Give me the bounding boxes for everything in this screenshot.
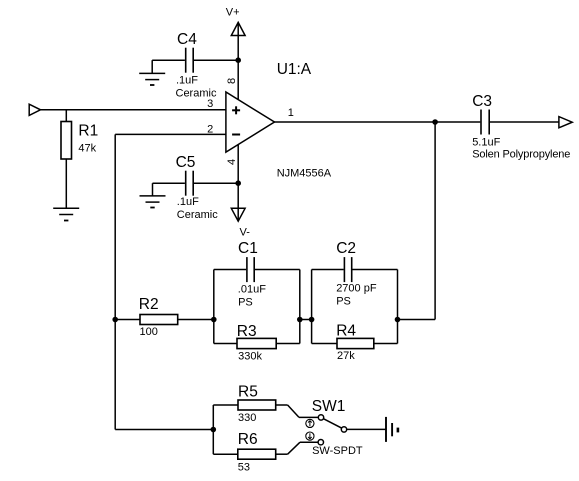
node C1/R3 right <box>297 317 303 323</box>
svg-text:C1: C1 <box>238 240 258 257</box>
svg-text:C4: C4 <box>177 31 197 48</box>
svg-text:27k: 27k <box>337 350 355 362</box>
svg-text:R5: R5 <box>238 384 258 401</box>
capacitor C5 <box>186 171 194 196</box>
wire to R6 <box>213 453 238 455</box>
node output junction <box>432 119 438 125</box>
svg-text:330: 330 <box>238 412 256 424</box>
node switch tee <box>211 427 217 433</box>
node C5/V- junction <box>235 180 241 186</box>
wire output junction down <box>434 122 436 320</box>
svg-text:5.1uF: 5.1uF <box>472 137 500 149</box>
svg-text:Ceramic: Ceramic <box>177 209 218 221</box>
svg-text:330k: 330k <box>238 350 262 362</box>
wire ground to C4 <box>152 59 185 61</box>
svg-text:SW1: SW1 <box>312 398 346 415</box>
capacitor C4 <box>186 48 194 73</box>
svg-text:100: 100 <box>140 326 158 338</box>
svg-text:1: 1 <box>288 107 294 119</box>
output terminal <box>559 117 572 128</box>
wire link between RC blocks <box>300 319 312 321</box>
node C1/R3 left <box>211 317 217 323</box>
capacitor C3 <box>481 110 489 135</box>
svg-text:2700 pF: 2700 pF <box>336 283 377 295</box>
wire C5 to V- rail <box>194 182 238 184</box>
node C4/V+ junction <box>235 57 241 63</box>
wire R4 bottom left <box>312 343 337 345</box>
wire feedback vertical <box>114 134 116 429</box>
capacitor C1 <box>247 257 254 282</box>
resistor R3 <box>237 338 276 348</box>
svg-text:.01uF: .01uF <box>238 283 266 295</box>
wire R3 bottom left <box>214 343 237 345</box>
wire ground to C5 <box>153 182 185 184</box>
svg-text:C5: C5 <box>176 154 196 171</box>
wire C3 to output terminal <box>490 121 559 123</box>
resistor R5 <box>238 400 276 410</box>
svg-text:4: 4 <box>226 159 238 165</box>
svg-text:V-: V- <box>240 227 251 239</box>
battery terminal <box>386 417 398 442</box>
svg-text:47k: 47k <box>78 142 96 154</box>
svg-text:.1uF: .1uF <box>177 196 199 208</box>
svg-text:Solen Polypropylene: Solen Polypropylene <box>472 149 570 161</box>
SW1 down actuator <box>306 432 314 440</box>
wire bottom horizontal to switch network <box>115 429 213 431</box>
wire C1/R3 left edge <box>213 270 215 344</box>
svg-text:C3: C3 <box>472 93 492 110</box>
switch SW1 <box>318 415 347 445</box>
svg-text:R3: R3 <box>237 323 257 340</box>
resistor R6 <box>238 449 276 459</box>
wire R5 to switch throw <box>276 405 319 417</box>
svg-text:V+: V+ <box>226 6 240 18</box>
capacitor C2 <box>344 257 351 282</box>
svg-text:.1uF: .1uF <box>176 75 198 87</box>
wire input to pin3 <box>41 109 226 111</box>
node C2/R4 right <box>395 317 401 323</box>
input terminal <box>29 104 40 115</box>
node C2/R4 left <box>309 317 315 323</box>
svg-text:53: 53 <box>238 462 250 474</box>
svg-text:2: 2 <box>207 123 213 135</box>
svg-text:C2: C2 <box>336 240 356 257</box>
wire op-amp pin 4 to V- <box>237 145 239 221</box>
wire C2 top right <box>353 269 398 271</box>
svg-text:8: 8 <box>226 78 238 84</box>
ground (C4) <box>139 60 165 85</box>
wire R6 to switch throw <box>276 442 318 454</box>
wire switch tee vertical <box>212 405 214 454</box>
wire R3 bottom right <box>276 343 300 345</box>
wire junction to R2 <box>115 319 140 321</box>
svg-text:PS: PS <box>238 297 253 309</box>
svg-text:R2: R2 <box>139 296 159 313</box>
svg-text:3: 3 <box>207 98 213 110</box>
wire op-amp output <box>275 121 481 123</box>
resistor R4 <box>337 338 374 348</box>
wire to R5 <box>213 404 238 406</box>
wire V+ rail to op-amp pin 8 <box>237 22 239 99</box>
op-amp U1:A <box>226 92 275 152</box>
wire C2/R4 left edge <box>311 270 313 344</box>
wire to C2/R4 right node <box>398 319 436 321</box>
svg-text:R1: R1 <box>78 123 98 140</box>
resistor R2 <box>140 315 178 325</box>
SW1 up actuator <box>306 419 314 427</box>
node R2 left junction <box>112 317 118 323</box>
ground (C5) <box>140 183 166 207</box>
wire pin2 feedback horizontal <box>115 133 226 135</box>
svg-text:SW-SPDT: SW-SPDT <box>312 445 363 457</box>
wire switch common to battery <box>347 428 386 430</box>
svg-text:R4: R4 <box>336 323 356 340</box>
svg-text:U1:A: U1:A <box>277 61 312 78</box>
wire C1/R3 right edge <box>299 270 301 344</box>
wire C1 top right <box>255 269 300 271</box>
power V- arrow <box>231 208 245 221</box>
wire R2 to C1/R3 node <box>178 319 214 321</box>
ground (R1) <box>53 208 79 220</box>
wire R4 bottom right <box>374 343 398 345</box>
power V+ arrow <box>231 22 245 35</box>
wire C4 to V+ rail <box>194 59 238 61</box>
resistor R1 <box>61 110 72 208</box>
wire C2 top left <box>312 269 344 271</box>
wire C1 top left <box>214 269 246 271</box>
svg-text:NJM4556A: NJM4556A <box>277 167 332 179</box>
svg-text:R6: R6 <box>238 431 258 448</box>
wire C2/R4 right edge <box>397 270 399 344</box>
svg-text:PS: PS <box>336 296 351 308</box>
